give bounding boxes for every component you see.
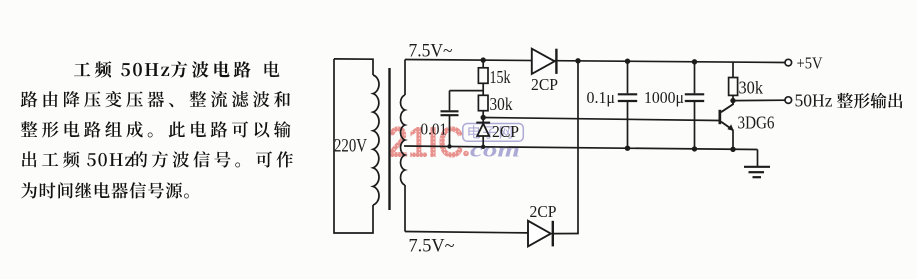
svg-text:0.1μ: 0.1μ xyxy=(587,88,616,107)
svg-text:3DG6: 3DG6 xyxy=(738,113,775,133)
svg-text:2CP: 2CP xyxy=(530,202,557,221)
wire to 0.01 cap xyxy=(450,90,484,92)
node rectifier output junction xyxy=(575,58,580,63)
ground xyxy=(744,150,770,178)
svg-text:+5V: +5V xyxy=(797,54,823,73)
resistor 30k (collector) xyxy=(732,62,734,77)
text block xyxy=(74,61,251,77)
svg-text:15k: 15k xyxy=(490,67,511,87)
svg-text:0.01: 0.01 xyxy=(421,120,448,139)
wire to 50Hz terminal xyxy=(733,99,785,101)
watermark 21IC.com xyxy=(388,118,523,167)
terminal +5V xyxy=(785,59,792,66)
diode 2CP (clamp) xyxy=(482,118,484,124)
svg-text:220V: 220V xyxy=(334,137,368,157)
transformer T primary winding xyxy=(334,59,373,75)
svg-text:7.5V~: 7.5V~ xyxy=(409,236,455,257)
capacitor 0.01 xyxy=(449,91,451,111)
wire bottom winding xyxy=(405,232,528,233)
wire diode to link xyxy=(553,233,579,235)
svg-text:7.5V~: 7.5V~ xyxy=(409,41,453,62)
diode 2CP top rectifier xyxy=(532,49,555,74)
transformer secondary winding xyxy=(404,60,406,96)
resistor 15k xyxy=(482,60,484,68)
transistor Q1 3DG6 xyxy=(483,101,734,150)
svg-text:com: com xyxy=(470,138,520,162)
wire rectifier link vertical xyxy=(577,61,579,234)
diode 2CP bottom rectifier xyxy=(528,221,551,247)
svg-text:30k: 30k xyxy=(490,94,513,114)
svg-text:50Hz: 50Hz xyxy=(795,91,833,111)
node base-drive junction xyxy=(481,115,486,120)
node secondary-top divider junction xyxy=(481,57,486,62)
svg-text:30k: 30k xyxy=(739,78,764,98)
node collector junction xyxy=(730,98,735,103)
terminal 50Hz output xyxy=(785,97,792,104)
svg-text:2CP: 2CP xyxy=(531,75,558,94)
transformer core xyxy=(388,68,390,210)
wire top rail xyxy=(405,60,785,63)
resistor 30k (divider) xyxy=(478,95,488,110)
svg-text:2CP: 2CP xyxy=(492,122,519,141)
wire center-tap ground rail xyxy=(404,146,758,150)
svg-text:1000μ: 1000μ xyxy=(644,88,684,107)
